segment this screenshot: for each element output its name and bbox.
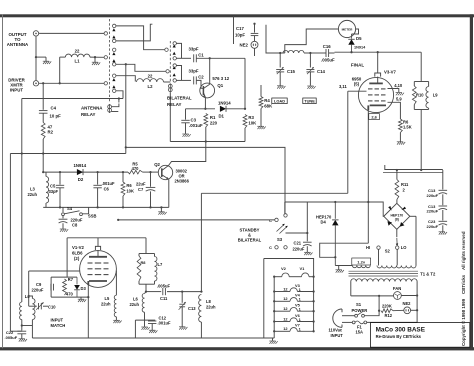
wire L6 bottom (144, 312, 146, 320)
inductor L2 (137, 79, 164, 82)
junction S1 R12 (378, 310, 380, 312)
svg-text:22uh: 22uh (130, 302, 140, 307)
junction grid drop link (28, 295, 30, 297)
resistor R10 (412, 86, 416, 105)
switch S2 HI contact (377, 246, 380, 249)
wire input coil bottoms (22, 320, 33, 326)
svg-text:S4: S4 (67, 206, 73, 211)
wire C12 rail left drop (134, 320, 136, 338)
wire D2 bus to Q2 base (143, 171, 159, 173)
wire C13 to ground (181, 307, 183, 327)
inductor L3 lead (45, 172, 47, 176)
wire NO2 to bilateral commonB (116, 64, 166, 71)
switch S2 LO contact (396, 246, 399, 249)
wire R10L9 bottom bar (414, 105, 428, 110)
bilateral relay commonA contact (165, 48, 168, 51)
wire NC3 to L2 (116, 76, 135, 82)
wire heater feed drop (263, 259, 265, 339)
label R12 (385, 313, 393, 318)
label 22 above L1 (75, 49, 80, 54)
svg-text:.001uF: .001uF (102, 181, 115, 186)
label F1 15A (356, 325, 364, 335)
wire L7 leads (154, 254, 156, 285)
wire output jack to relay common1 (39, 32, 104, 34)
bilateral relay NOA contact (173, 57, 176, 60)
junction S3 pole2 C21 (306, 232, 308, 234)
junction right leg fan (416, 294, 418, 296)
capacitor C11 (163, 288, 166, 295)
svg-text:R11: R11 (401, 182, 409, 187)
heater row V7 (273, 323, 315, 333)
wire Q2 collector riser (169, 142, 206, 166)
svg-text:C: C (269, 245, 272, 250)
capacitor C16 (326, 49, 329, 57)
bilateral relay arrows A (173, 45, 176, 55)
wire cathode net gnd stub (80, 297, 82, 299)
svg-text:FAN: FAN (393, 286, 401, 291)
wire R11 riser (396, 170, 398, 180)
svg-text:R1: R1 (210, 115, 216, 120)
svg-text:NE2: NE2 (403, 301, 412, 306)
antenna relay coil riser (118, 99, 120, 103)
capacitor C22 (17, 331, 26, 334)
label DRIVER XMTR INPUT (8, 78, 25, 93)
svg-text:33pF: 33pF (189, 47, 199, 52)
capacitor C9 (51, 284, 54, 291)
svg-text:576 3 12: 576 3 12 (212, 76, 229, 81)
ground C8 (60, 229, 68, 232)
label R3 10K (248, 115, 257, 126)
svg-text:BILATERAL: BILATERAL (238, 238, 262, 243)
ground bottom bus (158, 212, 166, 215)
label L4 (25, 294, 31, 299)
border frame top (0, 14, 474, 17)
wire R4 to ground (260, 109, 262, 127)
label .001uF C6 (102, 181, 115, 192)
inductor L7 (155, 257, 157, 281)
antenna relay coil K1 (108, 104, 112, 113)
svg-text:2,6: 2,6 (371, 114, 377, 119)
switch S3 bottom pole (269, 245, 287, 250)
label NE2 lamp top (240, 43, 249, 48)
wire link top bend (29, 296, 33, 299)
svg-text:L6: L6 (133, 297, 139, 302)
wire bottom bus gnd stub (160, 207, 162, 211)
svg-text:470: 470 (66, 292, 74, 297)
label S2 (385, 249, 391, 254)
svg-text:C4: C4 (51, 106, 57, 111)
wire C14 riser (309, 53, 311, 68)
variable capacitor C13 (179, 302, 186, 310)
wire L3 bottom lead (45, 203, 47, 207)
wire C10 left lead (29, 305, 37, 307)
antenna relay common contact 3 (104, 82, 107, 85)
label .005uF C16 (321, 58, 335, 63)
label T1 & T2 (420, 272, 436, 277)
wire grid2 5,9 lead (388, 102, 401, 119)
wire C21 riser (306, 202, 308, 241)
junction D4 heater tap (334, 256, 336, 258)
svg-text:2N3866: 2N3866 (175, 179, 190, 184)
label C13b 220uF (427, 204, 439, 214)
svg-text:1.2v: 1.2v (357, 260, 366, 265)
svg-text:L7: L7 (158, 262, 164, 267)
capacitor C13b (439, 206, 448, 210)
svg-text:C8: C8 (72, 223, 78, 228)
wire bus gnd stub (272, 338, 274, 341)
capacitor C23 lead (442, 210, 444, 221)
svg-text:Re-Drawn By CBTricks: Re-Drawn By CBTricks (376, 334, 422, 339)
junction cathode net (87, 296, 89, 298)
label S4 (67, 206, 73, 211)
wire output jack down to driver jack (35, 37, 37, 81)
label C10 (48, 305, 56, 310)
wire driver plate rail (67, 237, 146, 239)
junction L1 driver line (59, 82, 61, 84)
wire C1 to tank node (196, 57, 245, 59)
label NE2 panel (403, 301, 412, 306)
label C11 (160, 296, 168, 301)
label D2 (78, 177, 84, 182)
capacitor C1 (194, 54, 197, 62)
wire C22 riser (10, 326, 21, 332)
wire plate line to R10 (335, 51, 422, 53)
label LOAD box (272, 98, 287, 104)
wire S3 pole2 to C21 (286, 232, 308, 234)
label L6 22uh (130, 297, 140, 308)
label R8 (141, 260, 147, 265)
switch S2 lever (396, 238, 398, 246)
wire Q1 collector up (209, 58, 211, 84)
label 1N914 D1 (218, 101, 231, 106)
label L1 (74, 59, 80, 64)
wire D2 bottom bus (43, 206, 169, 208)
svg-text:FINAL: FINAL (351, 63, 364, 68)
label L9 (433, 93, 439, 98)
wire fan to right leg (401, 295, 417, 297)
junction C13 tap (181, 290, 183, 292)
junction tank left (279, 52, 281, 54)
junction R2 rail (42, 152, 44, 154)
bridge rectifier HEP170 (8) (384, 203, 410, 229)
label BILATERAL RELAY (167, 96, 192, 108)
junction tube plate cap tap (377, 51, 379, 53)
resistor R4 (259, 97, 263, 109)
wire R8L7 top bar (139, 253, 155, 255)
transformer core (349, 271, 419, 276)
wire NOA to C1 (176, 57, 191, 59)
inductor L1 (65, 54, 90, 57)
inductor L8 (199, 295, 202, 323)
final tube grid row2 (368, 94, 386, 96)
capacitor C6 (93, 185, 101, 188)
bilateral relay NCB contact (173, 64, 176, 67)
border frame left (2, 14, 3, 348)
wire R10 top lead (413, 82, 415, 87)
wire C16 leads (310, 52, 334, 54)
wire R6 to ground (399, 133, 401, 142)
wire cathode node line (285, 201, 369, 203)
wire bridge right to secondary (410, 215, 416, 217)
wire L1 left lead (60, 56, 66, 58)
svg-text:R2: R2 (48, 130, 54, 135)
switch S4 (62, 211, 83, 216)
junction rail input riser (21, 152, 23, 154)
wire heater right rail (313, 277, 315, 332)
svg-text:22uh: 22uh (101, 302, 111, 307)
wire C22 to ground (21, 334, 23, 339)
copyright text (461, 231, 466, 346)
wire meter left lead (285, 29, 339, 53)
svg-text:220: 220 (210, 120, 218, 125)
svg-text:1N914: 1N914 (354, 46, 366, 50)
label V2 heater (281, 266, 287, 271)
junction NO2 branch (125, 63, 127, 65)
wire R12 to NE2 (393, 309, 404, 311)
label HEP170 D4 (316, 215, 332, 225)
svg-text:METER: METER (342, 28, 354, 32)
svg-text:Q2: Q2 (154, 162, 160, 167)
wire 1.2v gnd drop (338, 266, 340, 270)
ground 1.2v winding (336, 270, 344, 273)
wire F1 to right leg (367, 321, 417, 323)
svg-text:22uF: 22uF (136, 182, 146, 187)
svg-text:R7: R7 (68, 277, 74, 282)
driver tube grid row2 (88, 268, 109, 270)
wire heater feed line (264, 259, 314, 277)
transformer primary (351, 279, 417, 282)
svg-text:C6: C6 (104, 187, 110, 192)
label INPUT MATCH (51, 318, 66, 329)
svg-text:R3: R3 (248, 115, 254, 120)
wire tank node down to R3 (244, 58, 246, 109)
wire input riser x21 down to L4 (21, 99, 23, 303)
label HEP170 (8) (390, 214, 403, 222)
label C12 .001uF (158, 316, 171, 326)
wire S2 common (396, 229, 398, 237)
inductor L3 (46, 177, 49, 204)
ground filter caps (439, 232, 447, 235)
svg-text:L1: L1 (74, 59, 80, 64)
svg-text:C14: C14 (317, 69, 325, 74)
svg-text:.005uF: .005uF (321, 58, 335, 63)
wire R8L7 feed (145, 238, 147, 254)
wire left vertical x10 down (9, 154, 11, 332)
antenna relay common contact 1 (104, 32, 107, 35)
heater winding V1 (302, 273, 310, 277)
wire hanging vertical near C17 (233, 16, 235, 44)
svg-text:(5): (5) (354, 82, 360, 87)
wire grid feed vertical (200, 193, 202, 291)
svg-text:R10: R10 (416, 93, 424, 98)
wire C17 to NE2 (254, 36, 256, 42)
capacitor C13a (439, 190, 448, 194)
label 1.2v box (352, 258, 371, 265)
wire D1 to R3 node (226, 108, 245, 110)
svg-text:.005uF: .005uF (5, 335, 18, 340)
svg-text:ANTENNA: ANTENNA (7, 42, 29, 47)
resistor R8 (137, 256, 141, 281)
label R11 2 (401, 182, 409, 193)
wire C23 to ground (442, 225, 444, 231)
label 30002 OR 2N3866 (175, 169, 190, 184)
wire S1 to junction (364, 311, 379, 316)
svg-text:15A: 15A (356, 330, 364, 335)
svg-text:220uF: 220uF (427, 193, 439, 198)
wire R8L7 bottom bar (139, 283, 155, 285)
label 33pF C1 (189, 47, 199, 52)
svg-text:ANTENNA: ANTENNA (81, 106, 103, 111)
ground C14 (307, 86, 315, 89)
switch S3 levers (277, 224, 288, 234)
wire L2 right to bilateral coil (164, 81, 171, 83)
svg-text:22: 22 (75, 49, 80, 54)
junction tank right (309, 52, 311, 54)
label C17 10pF (235, 26, 245, 38)
ground C3 (182, 134, 190, 137)
title block box (370, 323, 469, 348)
label R2 47 (48, 125, 54, 135)
junction coupling left (145, 290, 147, 292)
svg-text:5,9: 5,9 (396, 96, 402, 101)
wire R10L9 top bar (414, 52, 428, 81)
junction keying line standby branch (125, 146, 127, 148)
junction C6 top (96, 171, 98, 173)
wire grid line down to C10 (28, 271, 30, 306)
svg-text:33pF: 33pF (49, 189, 59, 194)
svg-text:S3: S3 (277, 237, 283, 242)
label C13a 220uF (427, 188, 439, 198)
wire meter bottom jog (280, 52, 285, 54)
wire C6 down (97, 188, 99, 208)
ground cathode net (78, 299, 86, 302)
wire C15 to ground (279, 72, 281, 86)
junction HV rail L9 (420, 169, 422, 171)
wire cathode to bottom bus (87, 297, 89, 338)
wire L5 to ground (115, 317, 117, 320)
junction right leg NE2 (416, 309, 418, 311)
resistor R11 (395, 180, 399, 200)
resistor R1 (204, 114, 208, 128)
fan motor (394, 292, 402, 300)
meter M1 (338, 20, 355, 37)
wire L8 bottom to bus (200, 322, 202, 338)
neon lamp NE2 panel (404, 307, 411, 314)
capacitor C12 (148, 321, 156, 324)
svg-text:LOAD: LOAD (274, 99, 285, 104)
label R10 (416, 93, 424, 98)
svg-text:C21: C21 (294, 241, 302, 246)
svg-text:S2: S2 (385, 249, 391, 254)
svg-text:MaCo 300 BASE: MaCo 300 BASE (376, 327, 426, 334)
wire antenna relay coil lower stub (112, 111, 119, 113)
capacitor C4 (39, 111, 48, 114)
svg-text:POWER: POWER (352, 308, 368, 313)
wire S1 junction riser (378, 296, 380, 311)
antenna relay moving arrows 3 (112, 78, 115, 88)
svg-text:C13: C13 (188, 306, 196, 311)
wire plug lower prong (342, 321, 352, 323)
wire driver tube cap riser (97, 238, 99, 246)
wire R1 to bias bus (205, 127, 207, 142)
svg-text:220uF: 220uF (427, 209, 439, 214)
label ANTENNA RELAY (81, 106, 103, 118)
neon lamp NE2 plate indicator (251, 41, 258, 48)
wire NOB to C2 (176, 79, 191, 81)
final tube cathode (368, 105, 386, 110)
label C23 220uF (427, 219, 439, 229)
ground R4 (257, 126, 265, 129)
wire R6b riser (122, 172, 124, 182)
ground C22 (19, 339, 27, 342)
wire driver jack to relay common3 (39, 82, 104, 84)
wire 1.2v left lead (335, 265, 352, 267)
capacitor C5 (56, 185, 64, 188)
svg-text:R6: R6 (403, 119, 409, 124)
capacitor C2 (194, 76, 197, 84)
label C9 220uF (32, 282, 44, 293)
wire C10 right stub (43, 305, 48, 307)
label C5 33pF (49, 184, 59, 195)
output antenna jack J1 (33, 31, 38, 36)
svg-text:22uh: 22uh (28, 192, 38, 197)
label C21 220uF (293, 241, 305, 252)
wire grid 3,11 lead (348, 90, 367, 92)
label L8 22uh (206, 299, 216, 310)
label 33pF C2 (189, 69, 199, 74)
wire R6b down (122, 196, 124, 207)
junction fan line (378, 295, 380, 297)
wire heater left rail (273, 277, 275, 338)
label C16 (323, 44, 331, 49)
svg-text:V2: V2 (281, 266, 287, 271)
antenna relay NO1 contact (113, 39, 116, 42)
svg-text:L2: L2 (147, 84, 153, 89)
final tube plate cap (375, 73, 381, 77)
junction L1 right (94, 56, 96, 58)
label C14 (317, 69, 325, 74)
wire C7 riser (150, 172, 152, 187)
junction bottom bus (59, 206, 163, 208)
wire plate rail left drop (66, 238, 68, 277)
junction cathode D4 (334, 201, 336, 203)
wire screen L5 riser (115, 271, 117, 296)
transformer 1.2v winding (352, 266, 370, 268)
label R6 10K (126, 183, 134, 194)
label C22 .005uF (5, 330, 18, 340)
heater row V6 (273, 313, 315, 323)
label L3 22uh (28, 187, 38, 198)
label Q1 (217, 83, 223, 88)
label C2 (198, 75, 204, 80)
wire plate feed elbow (266, 25, 280, 53)
inductor L5 (114, 295, 116, 317)
diode D5 1N914 (348, 34, 354, 52)
border frame right (470, 14, 473, 350)
svg-text:V1-V2: V1-V2 (72, 245, 85, 250)
label HI (366, 245, 370, 250)
junction heater top corners (273, 276, 315, 278)
ground C21 (304, 252, 312, 255)
diode D4 HEP170 (332, 202, 338, 266)
label 6950 (5) (352, 77, 362, 87)
driver tube plate cap (95, 246, 100, 250)
svg-text:L9: L9 (433, 93, 439, 98)
capacitor C21 (303, 242, 312, 246)
svg-text:D1: D1 (218, 113, 224, 118)
junction Q1 collector tap (209, 57, 211, 59)
wire NO3 to relay coil rail (116, 91, 123, 99)
